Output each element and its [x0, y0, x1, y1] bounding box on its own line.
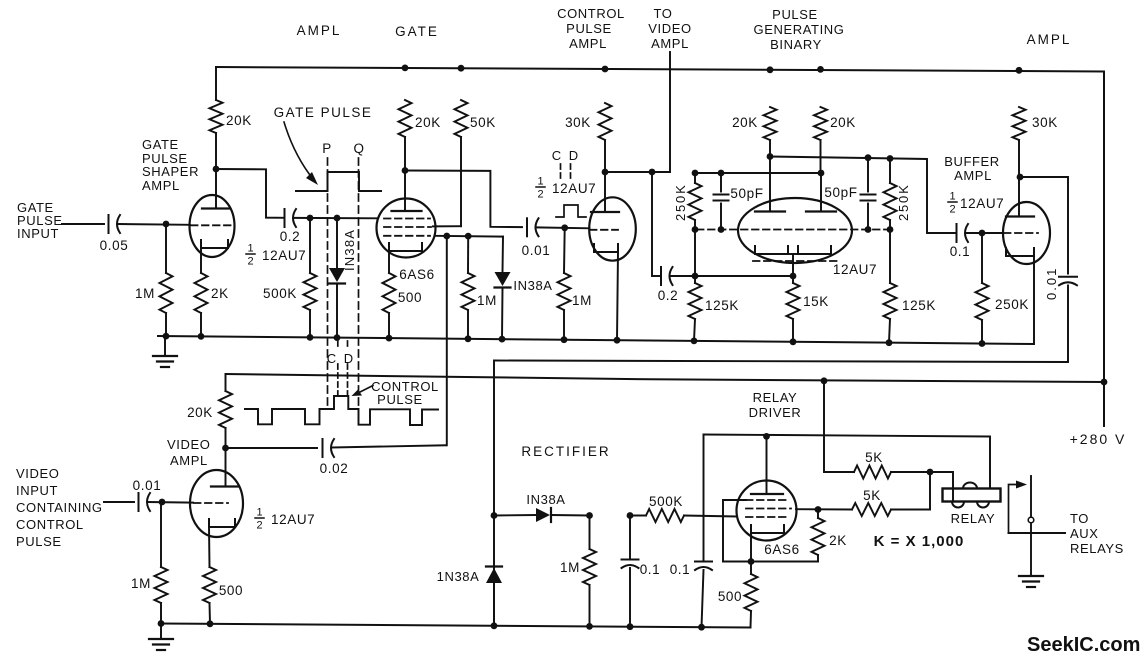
node binary left grid [692, 226, 699, 233]
svg-text:0.1: 0.1 [670, 562, 691, 577]
svg-text:15K: 15K [803, 294, 829, 309]
svg-text:20K: 20K [226, 113, 252, 128]
node stage1 plate node [213, 166, 220, 173]
resistor 30K plate load control ampl [599, 103, 612, 140]
svg-text:250K: 250K [673, 183, 688, 221]
svg-text:IN38A: IN38A [526, 492, 565, 507]
svg-text:PULSE: PULSE [566, 21, 612, 36]
svg-text:20K: 20K [732, 115, 758, 130]
svg-text:250K: 250K [896, 183, 911, 221]
svg-text:12AU7: 12AU7 [262, 248, 306, 263]
arrow control pulse annotation [359, 386, 373, 393]
svg-text:2K: 2K [211, 286, 229, 301]
svg-text:250K: 250K [995, 297, 1029, 312]
wire plate node row [605, 171, 670, 173]
dashed line Q [358, 158, 360, 408]
svg-text:GATE: GATE [395, 24, 439, 39]
node plate tap [763, 433, 770, 440]
op tube V4 duo-triode 12AU7 binary [738, 198, 852, 263]
node cathode junction [748, 558, 755, 565]
resistor 20K binary right plate load [814, 107, 827, 140]
resistor 500 relay driver cathode [750, 562, 752, 575]
svg-text:1M: 1M [572, 293, 592, 308]
svg-text:2: 2 [256, 520, 262, 532]
svg-text:12AU7: 12AU7 [271, 512, 315, 527]
svg-text:500: 500 [718, 589, 742, 604]
capacitor 0.1 coupling to buffer [956, 224, 958, 242]
resistor 500K grid leak gate [309, 218, 311, 273]
node 5K junction [927, 469, 934, 476]
resistor 20K binary left plate load [764, 107, 777, 140]
svg-text:INPUT: INPUT [17, 226, 59, 241]
svg-text:GENERATING: GENERATING [754, 22, 845, 37]
svg-text:VIDEO: VIDEO [167, 437, 210, 452]
wire junction to relay [930, 472, 953, 501]
svg-text:CONTROL: CONTROL [16, 517, 84, 532]
ground switch [1019, 575, 1043, 577]
svg-text:PULSE: PULSE [377, 392, 423, 407]
svg-text:1: 1 [537, 176, 543, 188]
svg-text:12AU7: 12AU7 [552, 181, 596, 196]
svg-text:IN38A: IN38A [342, 229, 357, 271]
node control plate node [602, 169, 609, 176]
capacitor 0.01 output coupling (vertical) [1059, 276, 1077, 278]
svg-text:1M: 1M [131, 576, 151, 591]
capacitor 50pF binary left [720, 173, 722, 192]
diode 1N38A series rectifier (horizontal) [536, 508, 550, 522]
svg-text:5K: 5K [863, 488, 881, 503]
wire right-side supply drop to +280V [1103, 72, 1105, 427]
wire cap to 6AS6 grid [294, 217, 377, 219]
svg-text:1M: 1M [560, 560, 580, 575]
svg-text:CONTAINING: CONTAINING [16, 500, 103, 515]
resistor 125K binary right [889, 230, 891, 284]
svg-text:2: 2 [949, 204, 955, 216]
node video plate node [222, 445, 229, 452]
svg-text:500K: 500K [649, 494, 683, 509]
svg-text:1: 1 [247, 243, 253, 255]
wire +280 tap down to 5K [824, 381, 854, 472]
dashed timing marks under CD [560, 164, 562, 180]
svg-text:500K: 500K [263, 286, 297, 301]
node rail junctions [163, 333, 170, 340]
svg-text:30K: 30K [1032, 115, 1058, 130]
node 250K left top [692, 170, 699, 177]
capacitor 0.2 coupling stage1 to gate [284, 209, 286, 227]
svg-text:125K: 125K [705, 298, 739, 313]
resistor 20K plate load stage1 [215, 67, 217, 100]
node output junction 2K [815, 506, 822, 513]
svg-text:+280 V: +280 V [1070, 431, 1127, 447]
svg-text:TO: TO [653, 6, 672, 21]
resistor 30K buffer plate load [1013, 107, 1026, 140]
node binary right grid [865, 226, 872, 233]
svg-text:50K: 50K [470, 115, 496, 130]
svg-text:2: 2 [537, 189, 543, 201]
wire long vertical video coupling [446, 236, 448, 445]
resistor 500 video cathode [203, 567, 216, 603]
svg-text:C D: C D [327, 351, 355, 366]
switch relay contact arm [1030, 476, 1032, 575]
ground top section [164, 336, 166, 356]
node gate plate node [402, 167, 409, 174]
node 0.1 junction [627, 512, 634, 519]
dashed CD marks [337, 341, 339, 350]
svg-text:RELAY: RELAY [753, 390, 798, 405]
wire buffer plate to 0.01 [1020, 177, 1068, 274]
waveform control pulse train [245, 396, 438, 425]
wire ground rail of lower section [161, 624, 751, 628]
svg-text:AMPL: AMPL [297, 23, 342, 38]
node lower rail junctions [158, 620, 165, 627]
svg-text:TO: TO [1070, 511, 1089, 526]
wire video input lead [104, 501, 134, 503]
node 1M junction [465, 233, 472, 240]
wire gate pulse input lead [62, 223, 104, 225]
node buffer plate node [1017, 174, 1024, 181]
svg-text:GATE: GATE [142, 137, 179, 152]
node 15K cathode junction [790, 273, 797, 280]
wire +280V distribution line C [226, 374, 1105, 382]
svg-text:AMPL: AMPL [954, 168, 992, 183]
svg-text:0.2: 0.2 [658, 288, 679, 303]
wire stage1 plate to coupling cap [216, 169, 284, 218]
svg-text:K = X 1,000: K = X 1,000 [874, 533, 965, 550]
svg-text:2: 2 [247, 256, 253, 268]
svg-text:20K: 20K [187, 405, 213, 420]
waveform control pulse icon [556, 205, 586, 217]
capacitor 50pF binary right [867, 157, 869, 191]
svg-text:AMPL: AMPL [569, 36, 607, 51]
wire 0.2 branch down [651, 172, 653, 276]
svg-text:0.2: 0.2 [280, 229, 301, 244]
resistor 125K binary left [694, 276, 696, 283]
capacitor 0.2 trigger coupling to binary [652, 275, 661, 277]
resistor 500K to relay driver grid [630, 515, 646, 517]
wire screen grid to 50K [433, 225, 461, 227]
svg-text:VIDEO: VIDEO [648, 21, 691, 36]
svg-text:AMPL: AMPL [651, 36, 689, 51]
capacitor 0.1 rectifier filter [629, 516, 631, 560]
svg-text:SeekIC.com: SeekIC.com [1027, 634, 1140, 656]
svg-text:GATE PULSE: GATE PULSE [274, 105, 373, 120]
wire 5K lower up to junction [929, 472, 931, 510]
svg-text:6AS6: 6AS6 [764, 542, 799, 557]
svg-text:2K: 2K [829, 533, 847, 548]
wire gate plate output to coupling cap [405, 171, 522, 228]
resistor 250K binary right grid [889, 159, 891, 184]
op tube V2 pentode 6AS6 gate [377, 199, 436, 258]
capacitor 0.1 plate bypass (vertical) [703, 435, 705, 562]
svg-text:AUX: AUX [1070, 526, 1099, 541]
resistor 1M gate output load [467, 236, 469, 273]
resistor 2K cathode stage1 [195, 273, 208, 313]
svg-text:30K: 30K [565, 115, 591, 130]
svg-text:DRIVER: DRIVER [749, 405, 802, 420]
svg-text:P: P [322, 141, 332, 156]
resistor 1M control grid leak [563, 228, 566, 273]
node 500K junction [307, 215, 314, 222]
node 1M rect junction [586, 512, 593, 519]
node binary left plate [767, 153, 774, 160]
svg-text:BUFFER: BUFFER [944, 154, 1000, 169]
svg-text:1N38A: 1N38A [437, 569, 480, 584]
wire 0.01 down to rectifier feed line B [494, 286, 1068, 626]
resistor 5K lower [852, 503, 891, 516]
node junction right supply with line C [1101, 379, 1108, 386]
capacitor 0.01 coupling to control ampl [526, 218, 528, 236]
capacitor 0.01 video input [138, 493, 140, 511]
svg-text:0.01: 0.01 [133, 478, 162, 493]
svg-text:125K: 125K [902, 298, 936, 313]
op tube V6 triode 1/2 12AU7 video ampl [190, 470, 243, 537]
resistor 15K binary cathode [792, 276, 794, 283]
node grid input junction [163, 221, 170, 228]
resistor 1M rectifier load [589, 516, 591, 550]
svg-text:C D: C D [552, 148, 580, 163]
wire ground rail of top section [158, 336, 1034, 344]
svg-text:SHAPER: SHAPER [142, 164, 199, 179]
resistor 2K [817, 510, 819, 519]
svg-text:0.05: 0.05 [100, 238, 129, 253]
svg-text:RELAY: RELAY [951, 511, 996, 526]
relay K1 coil [943, 489, 1001, 502]
op tube V3 triode 1/2 12AU7 control pulse ampl [589, 197, 636, 260]
svg-text:VIDEO: VIDEO [16, 466, 59, 481]
wire video plate to 0.02 [226, 447, 318, 449]
svg-text:1: 1 [949, 191, 955, 203]
resistor 1M grid leak stage1 [165, 224, 167, 273]
resistor 20K video plate load [225, 374, 227, 391]
svg-text:12AU7: 12AU7 [960, 196, 1004, 211]
resistor 50K screen dropper gate [455, 100, 468, 137]
svg-text:5K: 5K [865, 450, 883, 465]
svg-text:AMPL: AMPL [142, 178, 180, 193]
wire left plate cross coupling row [770, 157, 957, 234]
node video grid junction [159, 499, 166, 506]
ground video section [160, 624, 162, 640]
svg-text:AMPL: AMPL [1027, 32, 1072, 47]
wire contact arrow [1009, 485, 1019, 534]
svg-text:1M: 1M [477, 293, 497, 308]
svg-text:1M: 1M [135, 286, 155, 301]
wire cap to buffer grid [966, 232, 1003, 234]
resistor 500 cathode gate [383, 273, 396, 313]
node 50pF left top [718, 170, 725, 177]
svg-text:0.01: 0.01 [522, 243, 551, 258]
capacitor 0.02 video output coupling [322, 439, 324, 457]
wire right plate cross coupling row [695, 172, 821, 174]
svg-text:0.1: 0.1 [640, 562, 661, 577]
svg-text:CONTROL: CONTROL [557, 6, 625, 21]
op tube V7 pentode 6AS6 relay driver [737, 481, 797, 541]
diode 1N38A gate clamp (vertical) [336, 218, 338, 268]
svg-text:6AS6: 6AS6 [399, 267, 434, 282]
svg-text:12AU7: 12AU7 [833, 262, 877, 277]
node video feed junction [443, 233, 450, 240]
wire suppressor grid row [435, 235, 503, 238]
diode 1N38A shunt rectifier (vertical) [486, 565, 502, 567]
diode 1N38A clamp at gate output (vertical) [502, 237, 505, 272]
svg-text:RELAYS: RELAYS [1070, 541, 1124, 556]
wire left grid divider [694, 230, 696, 277]
node control grid 1M junction [561, 224, 568, 231]
dashed line P [327, 158, 329, 408]
node diode junction [334, 215, 341, 222]
wire TO VIDEO AMPL drop [669, 52, 671, 172]
wire rectifier input row [494, 514, 536, 517]
svg-text:50pF: 50pF [730, 186, 763, 201]
wire output row [796, 508, 852, 510]
svg-text:PULSE: PULSE [16, 534, 62, 549]
resistor 250K binary left grid [694, 173, 696, 183]
svg-text:Q: Q [353, 141, 364, 156]
wire top +280V supply rail [216, 67, 1104, 72]
svg-text:PULSE: PULSE [772, 7, 818, 22]
op tube V5 triode 1/2 12AU7 buffer [1003, 202, 1050, 264]
resistor 5K upper [854, 466, 891, 479]
wire cap to control grid [536, 226, 590, 229]
svg-text:50pF: 50pF [824, 185, 857, 200]
resistor 20K plate load gate [399, 100, 412, 137]
svg-text:500: 500 [398, 290, 422, 305]
svg-text:INPUT: INPUT [16, 483, 58, 498]
wire relay driver plate supply line [704, 435, 991, 489]
node rectifier input junction [491, 512, 498, 519]
arrow gate pulse annotation [284, 122, 313, 179]
resistor 1M video grid leak [160, 502, 162, 567]
svg-text:AMPL: AMPL [170, 453, 208, 468]
svg-text:500: 500 [219, 583, 243, 598]
node 50pF right top [865, 154, 872, 161]
svg-text:0.02: 0.02 [320, 461, 349, 476]
svg-text:IN38A: IN38A [513, 278, 552, 293]
wire cathode tie row [695, 275, 793, 277]
wire input cap to grid node [118, 223, 190, 226]
svg-text:RECTIFIER: RECTIFIER [521, 444, 610, 459]
svg-text:20K: 20K [830, 115, 856, 130]
node relay driver supply tap [821, 377, 828, 384]
svg-text:20K: 20K [415, 115, 441, 130]
capacitor 0.05 input coupling [108, 215, 110, 233]
svg-text:1: 1 [256, 507, 262, 519]
svg-text:BINARY: BINARY [770, 37, 822, 52]
resistor 250K buffer grid leak [981, 233, 983, 283]
svg-text:0.01: 0.01 [1044, 267, 1059, 300]
node buffer grid junction [979, 230, 986, 237]
svg-text:0.1: 0.1 [950, 244, 971, 259]
op tube V1 triode 1/2 12AU7 gate pulse shaper [190, 195, 235, 257]
node 250K right top [887, 155, 894, 162]
node binary right plate [818, 170, 825, 177]
node 0.2 branch junction [649, 169, 656, 176]
wire to aux relays [1009, 532, 1066, 534]
waveform gate pulse [296, 172, 381, 191]
wire input cap to video grid [148, 501, 193, 504]
node 125K left top / 0.2 junction [692, 273, 699, 280]
wire 0.02 to gate feed vertical [332, 445, 446, 447]
wire grid3 tie [723, 500, 818, 562]
